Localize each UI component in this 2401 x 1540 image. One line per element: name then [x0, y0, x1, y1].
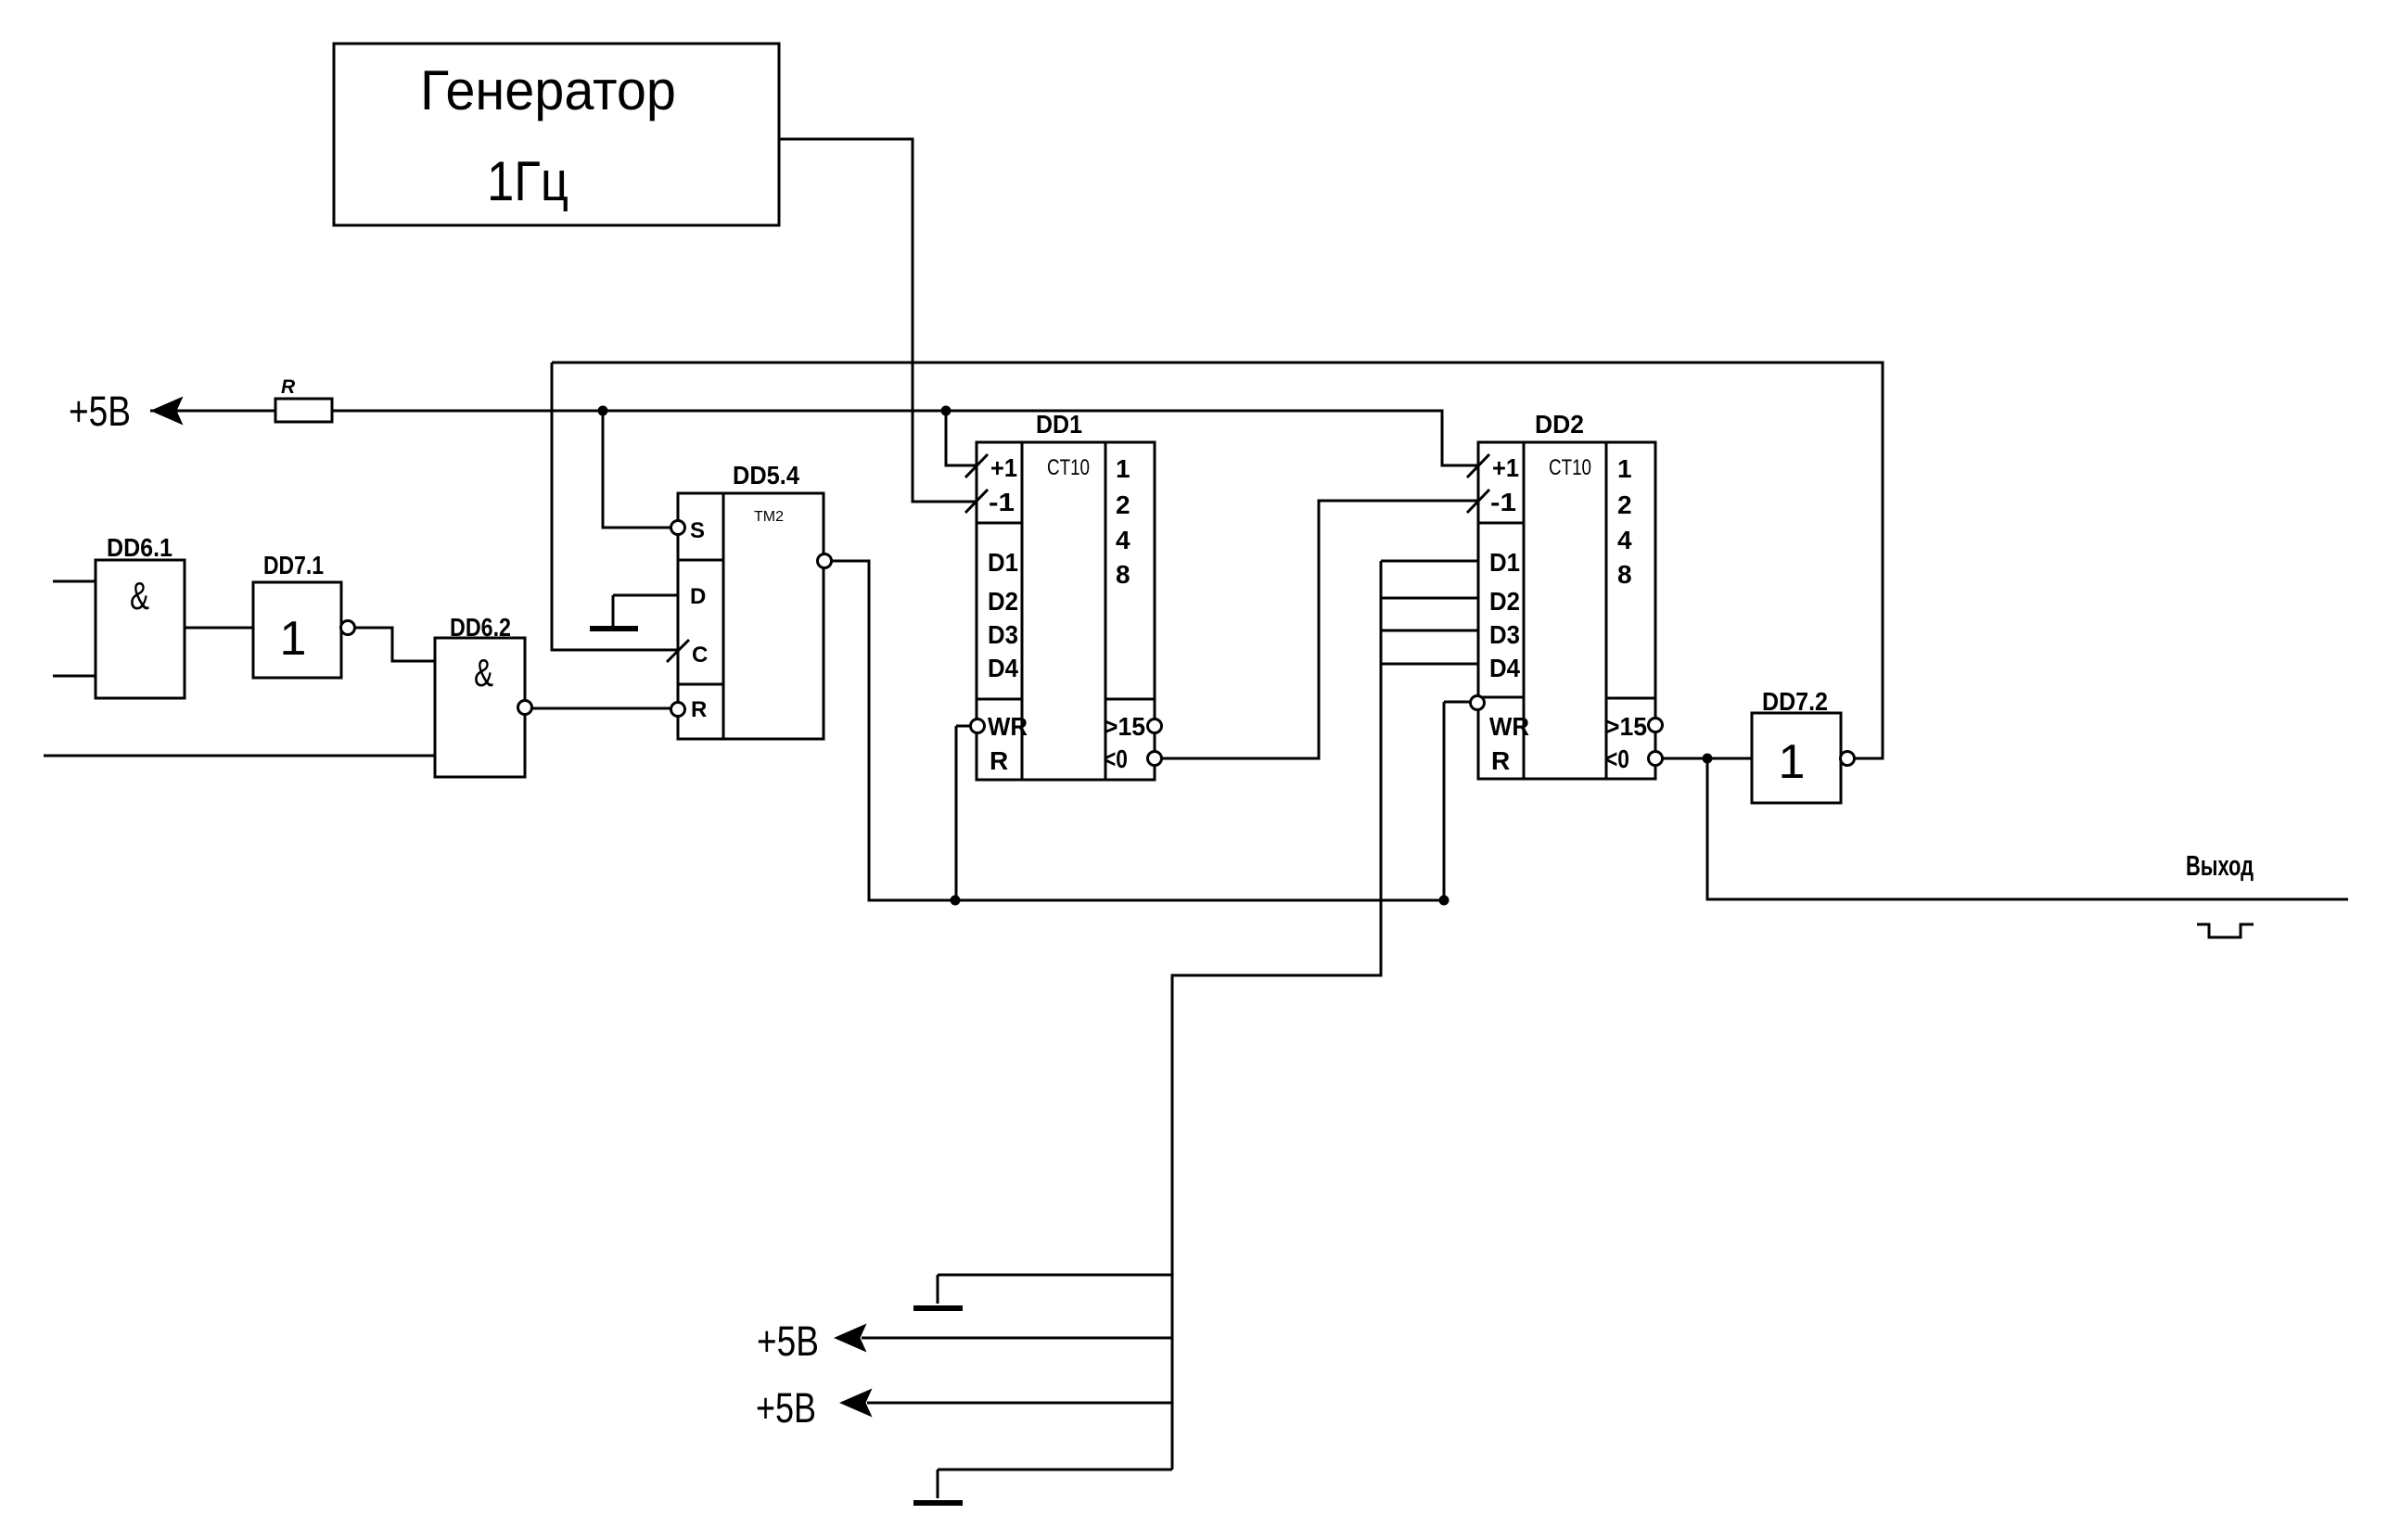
svg-text:4: 4 [1116, 526, 1130, 554]
svg-text:D3: D3 [1489, 620, 1520, 649]
svg-text:2: 2 [1617, 490, 1632, 519]
svg-text:+1: +1 [990, 453, 1017, 482]
svg-text:Выход: Выход [2186, 849, 2254, 882]
svg-text:Генератор: Генератор [420, 59, 676, 121]
svg-text:1Гц: 1Гц [487, 150, 568, 212]
svg-text:-1: -1 [989, 488, 1015, 516]
svg-text:DD7.2: DD7.2 [1762, 687, 1828, 716]
svg-text:&: & [130, 574, 149, 617]
svg-text:+5В: +5В [69, 388, 131, 435]
svg-text:DD6.2: DD6.2 [450, 613, 511, 642]
svg-text:D4: D4 [1489, 654, 1520, 682]
svg-text:8: 8 [1617, 560, 1632, 589]
svg-text:R: R [691, 697, 707, 722]
svg-text:R: R [990, 746, 1008, 775]
svg-text:WR: WR [1489, 712, 1529, 741]
svg-text:&: & [474, 651, 493, 694]
svg-text:4: 4 [1617, 526, 1632, 554]
svg-text:+1: +1 [1492, 453, 1519, 482]
svg-text:<0: <0 [1605, 745, 1629, 773]
svg-text:DD5.4: DD5.4 [733, 461, 799, 490]
svg-text:C: C [692, 643, 708, 668]
svg-text:DD7.1: DD7.1 [263, 551, 324, 579]
svg-text:DD2: DD2 [1535, 410, 1584, 439]
svg-text:1: 1 [1116, 454, 1130, 483]
svg-text:CT10: CT10 [1549, 455, 1591, 480]
svg-text:1: 1 [1779, 735, 1806, 789]
svg-text:>15: >15 [1104, 712, 1145, 741]
svg-text:ТМ2: ТМ2 [754, 509, 784, 525]
svg-text:+5В: +5В [756, 1384, 816, 1432]
svg-text:DD6.1: DD6.1 [107, 533, 172, 562]
svg-text:+5В: +5В [757, 1317, 819, 1365]
svg-text:WR: WR [988, 712, 1028, 741]
svg-text:<0: <0 [1104, 745, 1128, 773]
svg-text:D1: D1 [1489, 548, 1520, 577]
svg-text:R: R [281, 376, 296, 398]
svg-text:D1: D1 [988, 548, 1018, 577]
svg-text:D2: D2 [1489, 587, 1520, 616]
svg-text:D: D [690, 584, 706, 609]
svg-text:D4: D4 [988, 654, 1018, 682]
svg-text:D3: D3 [988, 620, 1018, 649]
svg-text:8: 8 [1116, 560, 1130, 589]
svg-text:CT10: CT10 [1047, 455, 1090, 480]
svg-text:2: 2 [1116, 490, 1130, 519]
svg-text:R: R [1491, 746, 1510, 775]
svg-text:1: 1 [1617, 454, 1632, 483]
svg-text:DD1: DD1 [1036, 410, 1082, 439]
svg-text:1: 1 [280, 612, 307, 666]
svg-text:D2: D2 [988, 587, 1018, 616]
svg-text:-1: -1 [1490, 488, 1516, 516]
svg-text:S: S [690, 518, 705, 543]
svg-text:>15: >15 [1605, 712, 1647, 741]
